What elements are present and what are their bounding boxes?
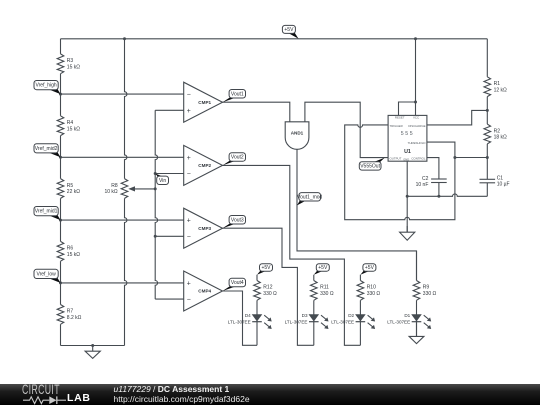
net flag Vin (155, 174, 168, 185)
node Vin / CMP3 minus tee (154, 235, 157, 238)
svg-text:D4: D4 (245, 313, 251, 318)
wire Vout2 to D2 cathode (223, 165, 361, 345)
AND gate AND1 (285, 122, 309, 150)
svg-text:THRESHOLD: THRESHOLD (408, 141, 426, 145)
net flag Vout1 (223, 90, 246, 103)
node Vref_high tap (59, 93, 62, 96)
svg-text:R3: R3 (67, 58, 74, 64)
svg-text:15 kΩ: 15 kΩ (67, 126, 80, 132)
svg-text:Vref_mid1: Vref_mid1 (35, 209, 58, 215)
svg-text:15 kΩ: 15 kΩ (67, 64, 80, 70)
op-amp CMP1 (184, 82, 223, 122)
svg-text:555: 555 (401, 131, 414, 137)
resistor R7 8.2k (57, 283, 81, 346)
footer title text (114, 385, 250, 405)
net flag +5V top (282, 25, 298, 38)
svg-text:D2: D2 (348, 313, 354, 318)
wire 555 RESET jog (399, 102, 416, 115)
wire +5V top rail (61, 38, 488, 40)
node R2-C1-threshold junction (486, 156, 489, 159)
svg-text:330 Ω: 330 Ω (263, 291, 277, 297)
wire Vref_mid2 net to CMP2 plus (61, 156, 184, 158)
svg-text:Vref_high: Vref_high (35, 83, 56, 89)
svg-text:−: − (187, 234, 191, 241)
wire C2 bottom to ground net (438, 182, 440, 196)
svg-text:12 kΩ: 12 kΩ (494, 87, 507, 93)
wire Vin vertical bus (155, 110, 157, 299)
capacitor C2 10nF (416, 176, 447, 188)
svg-text:10 nF: 10 nF (416, 182, 429, 188)
svg-text:R9: R9 (423, 285, 430, 291)
wire V555Out to AND1 input B (305, 102, 388, 157)
svg-text:TRIGGER: TRIGGER (390, 124, 403, 128)
svg-text:22 kΩ: 22 kΩ (67, 189, 80, 195)
node C2 / ground rail (437, 195, 440, 198)
svg-text:Vin: Vin (159, 178, 166, 184)
resistor R2 18k (484, 110, 507, 157)
svg-text:CMP1: CMP1 (198, 100, 211, 105)
capacitor C1 10uF (480, 175, 510, 187)
svg-text:C1: C1 (497, 175, 504, 181)
wire 555 TRIGGER net (345, 125, 455, 220)
net flag V555Out (359, 158, 385, 170)
resistor R1 12k (484, 77, 507, 97)
svg-text:+5V: +5V (284, 27, 294, 33)
wire D1 lead to ground (416, 314, 418, 336)
wire AND1 output Vout1_mod to R9 (297, 149, 417, 280)
svg-text:−: − (187, 92, 191, 99)
wire Vin to CMP4 minus (155, 298, 184, 300)
svg-text:R6: R6 (67, 246, 74, 252)
svg-text:OUTPUT: OUTPUT (390, 157, 402, 161)
svg-text:330 Ω: 330 Ω (367, 291, 381, 297)
svg-text:D3: D3 (302, 313, 308, 318)
net flag Vout4 (223, 278, 246, 291)
svg-text:GND: GND (403, 157, 409, 161)
wire Vin to CMP2 minus (155, 173, 184, 175)
svg-text:15 kΩ: 15 kΩ (67, 252, 80, 258)
svg-text:10 kΩ: 10 kΩ (104, 189, 117, 195)
svg-text:18 kΩ: 18 kΩ (494, 135, 507, 141)
LED D3 LTL-307EE (285, 313, 329, 329)
node: 555 RESET-VCC tie (414, 101, 417, 104)
svg-text:−: − (187, 171, 191, 178)
wire 555 VCC/RESET to +5V rail (415, 39, 417, 116)
node R1-R2-discharge junction (486, 109, 489, 112)
net flag +5V for R12 (257, 264, 273, 275)
svg-text:LTL-307EE: LTL-307EE (331, 319, 354, 324)
svg-text:R10: R10 (367, 285, 376, 291)
svg-text:Vout2: Vout2 (231, 155, 244, 161)
node Vin / R8 wiper tee (154, 187, 157, 190)
svg-text:LTL-307EE: LTL-307EE (285, 319, 308, 324)
net flag Vout1_mod (297, 193, 323, 206)
resistor R10 330 (357, 275, 380, 314)
svg-text:+: + (187, 108, 191, 115)
svg-text:8.2 kΩ: 8.2 kΩ (67, 315, 82, 321)
svg-text:330 Ω: 330 Ω (423, 291, 437, 297)
svg-text:10 µF: 10 µF (497, 182, 510, 188)
node: +5V rail / second rail junction (123, 37, 126, 40)
wire Vref_high net to CMP1 minus (61, 93, 184, 95)
wire R2 top lead (486, 97, 488, 111)
resistor R5 22k (57, 157, 80, 220)
wire R8 wiper (130, 188, 155, 190)
net flag +5V for R10 (360, 264, 376, 275)
LED D4 LTL-307EE (228, 313, 272, 329)
LED D2 LTL-307EE (331, 313, 375, 329)
resistor R11 330 (311, 275, 334, 314)
node threshold junction (453, 156, 456, 159)
svg-text:+: + (187, 155, 191, 162)
svg-text:+: + (187, 281, 191, 288)
wire Vout4 to D4 cathode (223, 291, 258, 345)
svg-text:+5V: +5V (318, 265, 328, 271)
net flag Vout2 (223, 153, 246, 166)
node Vref_low tap (59, 281, 62, 284)
svg-text:R8: R8 (111, 183, 118, 189)
svg-text:R2: R2 (494, 128, 501, 134)
svg-text:Vout1_mod: Vout1_mod (297, 194, 323, 200)
svg-text:D1: D1 (404, 313, 410, 318)
LED D1 LTL-307EE (387, 313, 431, 329)
resistor R4 15k (57, 94, 80, 157)
svg-text:AND1: AND1 (291, 131, 304, 136)
wire C1 bottom lead (486, 183, 488, 197)
555 timer U1 (388, 115, 427, 161)
svg-text:U1: U1 (404, 149, 411, 155)
ground below D1 (409, 322, 424, 344)
wire D2 anode/cathode leads (359, 314, 361, 345)
net flag Vout3 (223, 216, 246, 229)
wire second rail with R8 (upper part) (125, 39, 127, 179)
net flag Vref_mid1 (34, 207, 61, 221)
potentiometer R8 10k (104, 179, 127, 199)
svg-text:RESET: RESET (395, 115, 405, 119)
svg-text:R12: R12 (263, 285, 272, 291)
resistor R6 15k (57, 220, 80, 283)
wire 555 GND pin down (406, 161, 408, 232)
svg-text:Vref_mid2: Vref_mid2 (35, 146, 58, 152)
node 555 GND / ground rail (406, 195, 409, 198)
svg-text:R5: R5 (67, 183, 74, 189)
node: +5V rail / 555 VCC junction (414, 37, 417, 40)
node Vin / CMP2 minus tee (154, 172, 157, 175)
svg-text:+5V: +5V (261, 265, 271, 271)
wire Vout1 to AND1 input A (223, 102, 290, 122)
resistor R12 330 (254, 275, 277, 314)
wire ground net horizontal (407, 194, 487, 196)
net flag +5V for R11 (314, 264, 330, 275)
svg-text:R7: R7 (67, 309, 74, 315)
potentiometer wiper arrowhead (128, 186, 135, 191)
wire Vref_mid1 net to CMP3 plus (61, 219, 184, 221)
ground below 555 (400, 226, 415, 240)
svg-text:LTL-307EE: LTL-307EE (228, 319, 251, 324)
svg-text:Vout1: Vout1 (231, 91, 244, 97)
node Vref_mid1 tap (59, 219, 62, 222)
svg-text:VCC: VCC (413, 115, 419, 119)
svg-text:LTL-307EE: LTL-307EE (387, 319, 410, 324)
svg-text:R11: R11 (320, 285, 329, 291)
svg-text:Vout3: Vout3 (231, 217, 244, 223)
svg-text:330 Ω: 330 Ω (320, 291, 334, 297)
wire second rail lower part (125, 198, 127, 345)
wire Vout3 to D3 cathode (223, 228, 314, 345)
wire 555 THRESHOLD net (427, 142, 487, 157)
op-amp CMP4 (184, 271, 223, 311)
svg-text:CMP4: CMP4 (198, 289, 211, 294)
wire Vin to CMP3 minus (155, 235, 184, 237)
svg-text:CMP3: CMP3 (198, 226, 211, 231)
node Vref_mid2 tap (59, 156, 62, 159)
ground ladder (85, 346, 100, 359)
net flag Vref_low (34, 269, 61, 283)
svg-text:CMP2: CMP2 (198, 163, 211, 168)
node ladder ground tee (91, 344, 94, 347)
wire Vref_low net to CMP4 plus (61, 282, 184, 284)
wire C1 top lead (486, 158, 488, 180)
wire D3 anode/cathode leads (313, 314, 315, 345)
net flag Vref_high (34, 81, 61, 95)
wire D4 anode/cathode leads (256, 314, 258, 345)
resistor R3 15k (57, 44, 80, 94)
wire 555 CONTROL to C2 (427, 158, 439, 179)
svg-text:Vout4: Vout4 (231, 280, 244, 286)
svg-text:R1: R1 (494, 81, 501, 87)
svg-text:DISCHARGE: DISCHARGE (408, 124, 425, 128)
wire R1 branch (486, 39, 488, 77)
svg-text:V555Out: V555Out (360, 163, 380, 169)
svg-text:CONTROL: CONTROL (411, 157, 426, 161)
wire Vin to CMP1 plus (155, 109, 184, 111)
op-amp CMP2 (184, 145, 223, 185)
svg-text:+: + (187, 218, 191, 225)
svg-text:R4: R4 (67, 120, 74, 126)
svg-text:+5V: +5V (365, 265, 375, 271)
op-amp CMP3 (184, 208, 223, 248)
net flag Vref_mid2 (34, 144, 61, 158)
wire ladder bottom rail (61, 345, 125, 347)
wire ladder rail segment R3 top (60, 39, 62, 44)
svg-text:−: − (187, 297, 191, 304)
wire 555 DISCHARGE to R1/R2 junction (427, 110, 487, 125)
resistor R9 330 (413, 251, 436, 314)
svg-text:Vref_low: Vref_low (36, 271, 56, 277)
CircuitLab logo (22, 384, 102, 405)
